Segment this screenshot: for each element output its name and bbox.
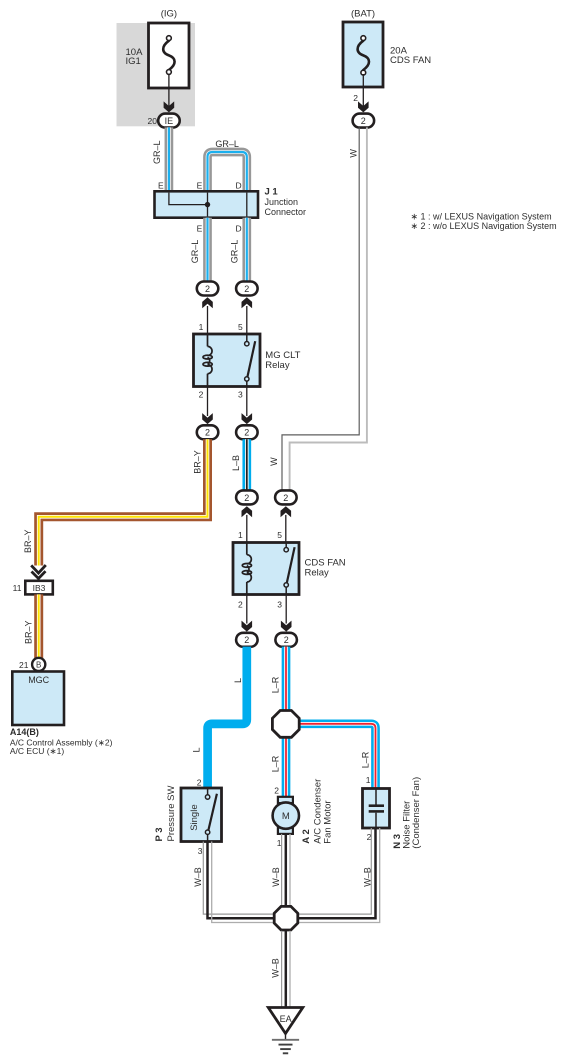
svg-text:2: 2	[205, 428, 210, 438]
wire label GR-L (left)	[152, 141, 162, 165]
svg-text:W–B: W–B	[193, 867, 203, 887]
wire W-B from motor to ground octagon	[282, 834, 290, 905]
wire L-R branch from octagon to noise filter	[299, 724, 376, 789]
svg-text:20: 20	[148, 116, 158, 126]
svg-text:A 2: A 2	[301, 829, 312, 843]
wire label L-B	[231, 455, 241, 471]
svg-text:1: 1	[366, 775, 371, 785]
label (BAT)	[351, 9, 375, 20]
wire W-B from pressure switch to ground octagon	[203, 842, 273, 923]
svg-text:L–R: L–R	[270, 676, 280, 693]
svg-text:Fan Motor: Fan Motor	[323, 800, 334, 843]
down arrow from CDS pin3	[281, 595, 292, 632]
wire BR-Y from IB3 to MGC pin B	[34, 594, 43, 658]
svg-text:Single: Single	[189, 804, 200, 830]
A2 labels	[301, 779, 334, 844]
svg-text:L–R: L–R	[270, 755, 280, 772]
svg-text:J 1: J 1	[265, 187, 279, 198]
note texts	[411, 212, 557, 232]
svg-text:2: 2	[244, 635, 249, 645]
svg-text:Connector: Connector	[265, 207, 307, 217]
relay CDS FAN	[233, 543, 299, 595]
wire L-R from octagon to fan motor	[282, 739, 291, 798]
wire label L (lower)	[192, 747, 202, 752]
svg-text:2: 2	[199, 390, 204, 400]
pressure switch P3	[181, 788, 222, 842]
svg-text:D: D	[235, 224, 241, 234]
svg-text:∗ 2 : w/o LEXUS Navigation Sys: ∗ 2 : w/o LEXUS Navigation System	[411, 221, 557, 231]
wire W-B from noise filter to ground octagon	[299, 828, 380, 923]
MG relay pin labels 1 5	[199, 322, 243, 332]
svg-text:GR–L: GR–L	[229, 240, 239, 264]
J1 bottom pin labels E D	[197, 224, 242, 234]
relay MG CLT	[194, 334, 261, 387]
svg-text:2: 2	[238, 600, 243, 610]
wire label L (upper)	[233, 678, 243, 683]
svg-text:W–B: W–B	[271, 867, 281, 887]
svg-text:L–B: L–B	[231, 455, 241, 471]
wire L-B from MG pin3 connector down	[242, 439, 251, 490]
wire GR-L from J1 to MG CLT relay pin5 connector	[242, 218, 251, 282]
svg-text:5: 5	[238, 322, 243, 332]
wire GR-L from J1 to MG CLT relay pin1 connector	[203, 218, 212, 282]
wire label W-B (left)	[193, 867, 203, 887]
wire label BR-Y (left column lower)	[23, 621, 33, 645]
svg-text:A/C ECU (∗1): A/C ECU (∗1)	[10, 746, 65, 756]
ground junction octagon (W-B)	[274, 906, 298, 930]
CDS relay pin labels 2 3	[238, 600, 282, 610]
svg-text:2: 2	[244, 493, 249, 503]
svg-text:1: 1	[199, 322, 204, 332]
svg-text:1: 1	[238, 530, 243, 540]
svg-text:CDS FAN: CDS FAN	[390, 55, 431, 66]
up arrow into oval (MG pin5)	[242, 297, 253, 334]
svg-text:E: E	[197, 224, 203, 234]
svg-text:W–B: W–B	[271, 958, 281, 978]
J1 labels	[265, 187, 307, 217]
gray panel behind IG fuse	[117, 23, 196, 126]
down arrow from MG pin2	[202, 387, 213, 425]
wire label BR-Y (upper)	[193, 450, 203, 474]
svg-text:D: D	[235, 180, 241, 190]
pin 1 label (noise filter)	[366, 775, 371, 785]
wire label BR-Y (left column upper)	[23, 530, 33, 554]
A/C condenser fan motor A2	[273, 797, 299, 834]
svg-text:3: 3	[238, 390, 243, 400]
svg-text:2: 2	[244, 428, 249, 438]
connector oval 2 (below MG pin3)	[236, 425, 258, 439]
arrow from IG fuse to IE connector	[164, 74, 175, 112]
connector oval 2 (below CDS pin2)	[236, 633, 258, 647]
wire label L-R (above motor)	[270, 755, 280, 772]
chevron arrows into IB3	[31, 565, 46, 578]
svg-text:L–R: L–R	[361, 751, 371, 768]
pin 3 label (pressure switch)	[198, 846, 203, 856]
connector IB3	[25, 581, 53, 595]
connector oval 2 (above MG CLT pin5)	[236, 282, 258, 296]
svg-text:∗ 1 : w/ LEXUS Navigation Syst: ∗ 1 : w/ LEXUS Navigation System	[411, 212, 552, 222]
svg-text:M: M	[282, 811, 290, 822]
down arrow from CDS pin2	[242, 595, 253, 632]
wire label W (top)	[348, 149, 358, 158]
A14(B) labels	[10, 727, 113, 756]
connector oval 2 (above CDS pin1)	[236, 490, 258, 504]
connector oval 2 (above MG CLT pin1)	[197, 282, 219, 296]
A/C control assembly MGC box	[12, 672, 64, 726]
svg-text:Relay: Relay	[265, 360, 290, 371]
pin 1 label (motor)	[277, 838, 282, 848]
svg-text:A14(B): A14(B)	[10, 727, 39, 737]
wire label GR-L (above loop)	[215, 139, 239, 149]
wire label W-B (middle)	[271, 867, 281, 887]
MG CLT relay labels	[265, 350, 300, 371]
wire label W-B (bottom)	[271, 958, 281, 978]
svg-text:2: 2	[244, 284, 249, 294]
svg-text:2: 2	[361, 116, 366, 126]
wire GR-L from IE to J1	[165, 127, 174, 191]
svg-text:(IG): (IG)	[161, 9, 177, 20]
pin 2 label (noise filter)	[367, 832, 372, 842]
pin 21 label	[19, 660, 29, 670]
svg-text:2: 2	[197, 778, 202, 788]
svg-text:2: 2	[274, 785, 279, 795]
wire L-R from CDS pin3 connector to junction octagon	[282, 647, 291, 710]
wire W from BAT connector down-left to CDS fan relay column	[282, 127, 367, 490]
connector IE oval	[158, 114, 180, 128]
svg-text:E: E	[158, 180, 164, 190]
svg-text:(Condenser Fan): (Condenser Fan)	[411, 777, 422, 849]
arrow from BAT fuse to connector 2	[358, 74, 369, 112]
svg-text:L: L	[192, 747, 202, 752]
connector oval 2 (above CDS pin5)	[275, 490, 297, 504]
up arrow into oval (CDS pin1)	[242, 506, 253, 542]
wire GR-L loop above J1	[208, 152, 247, 191]
svg-text:IG1: IG1	[126, 56, 141, 67]
svg-text:EA: EA	[280, 1014, 292, 1024]
wire label L-R (above octagon)	[270, 676, 280, 693]
svg-text:W–B: W–B	[363, 867, 373, 887]
svg-text:Pressure SW: Pressure SW	[166, 786, 177, 842]
noise filter N3	[363, 789, 390, 829]
svg-text:BR–Y: BR–Y	[23, 530, 33, 554]
svg-text:IE: IE	[165, 116, 174, 126]
CDS FAN relay labels	[305, 558, 346, 579]
wire label GR-L (right below J1)	[229, 240, 239, 264]
svg-text:3: 3	[198, 846, 203, 856]
pin B circle	[32, 658, 45, 671]
CDS relay pin labels 1 5	[238, 530, 282, 540]
svg-text:BR–Y: BR–Y	[193, 450, 203, 474]
svg-text:2: 2	[283, 493, 288, 503]
ground hatch symbol	[272, 1034, 299, 1054]
svg-text:2: 2	[205, 284, 210, 294]
wire label L-R (right branch)	[361, 751, 371, 768]
svg-text:GR–L: GR–L	[190, 240, 200, 264]
pin 20 label	[148, 116, 158, 126]
svg-text:W: W	[348, 149, 358, 158]
svg-text:BR–Y: BR–Y	[23, 621, 33, 645]
pin 2 label (motor)	[274, 785, 279, 795]
connector oval 2 (below MG pin2)	[197, 425, 219, 439]
wire BR-Y from MG pin2 connector to IB3 chevron	[39, 439, 208, 565]
connector oval 2 (BAT)	[353, 114, 375, 128]
svg-text:Relay: Relay	[305, 567, 330, 578]
svg-text:11: 11	[13, 583, 22, 593]
svg-text:(BAT): (BAT)	[351, 9, 375, 20]
up arrow into oval (MG pin1)	[202, 297, 213, 334]
pin 2 label below BAT fuse	[353, 93, 358, 103]
wire label W (middle)	[269, 457, 279, 466]
connector oval 2 (below CDS pin3)	[275, 633, 297, 647]
svg-text:5: 5	[277, 530, 282, 540]
wire L from CDS pin2 connector to pressure switch	[208, 647, 247, 788]
svg-text:MGC: MGC	[28, 675, 49, 685]
svg-text:IB3: IB3	[33, 583, 46, 593]
N3 labels	[392, 777, 422, 849]
svg-text:21: 21	[19, 660, 29, 670]
svg-text:GR–L: GR–L	[215, 139, 239, 149]
up arrow into oval (CDS pin5)	[281, 506, 292, 542]
wire label W-B (right)	[363, 867, 373, 887]
junction connector J1	[155, 191, 259, 217]
wire label GR-L (left below J1)	[190, 240, 200, 264]
junction octagon (L-R)	[272, 711, 299, 738]
label (IG)	[161, 9, 177, 20]
svg-text:W: W	[269, 457, 279, 466]
MG relay pin labels 2 3	[199, 390, 243, 400]
pin 2 label (pressure switch)	[197, 778, 202, 788]
wire W-B from octagon to ground EA	[282, 931, 290, 1007]
down arrow from MG pin3	[242, 387, 253, 425]
svg-text:GR–L: GR–L	[152, 141, 162, 165]
svg-text:2: 2	[284, 635, 289, 645]
ground EA triangle	[268, 1008, 303, 1034]
svg-text:2: 2	[353, 93, 358, 103]
svg-text:Junction: Junction	[265, 197, 299, 207]
pin 11 label	[13, 583, 22, 593]
P3 labels	[154, 786, 177, 842]
J1 top pin labels E E D	[158, 180, 242, 190]
svg-text:B: B	[36, 660, 41, 669]
svg-text:P 3: P 3	[154, 827, 165, 841]
fuse 20A CDS FAN	[343, 22, 431, 87]
fuse 10A IG1	[126, 23, 190, 88]
svg-text:3: 3	[277, 600, 282, 610]
svg-text:E: E	[197, 180, 203, 190]
svg-text:L: L	[233, 678, 243, 683]
